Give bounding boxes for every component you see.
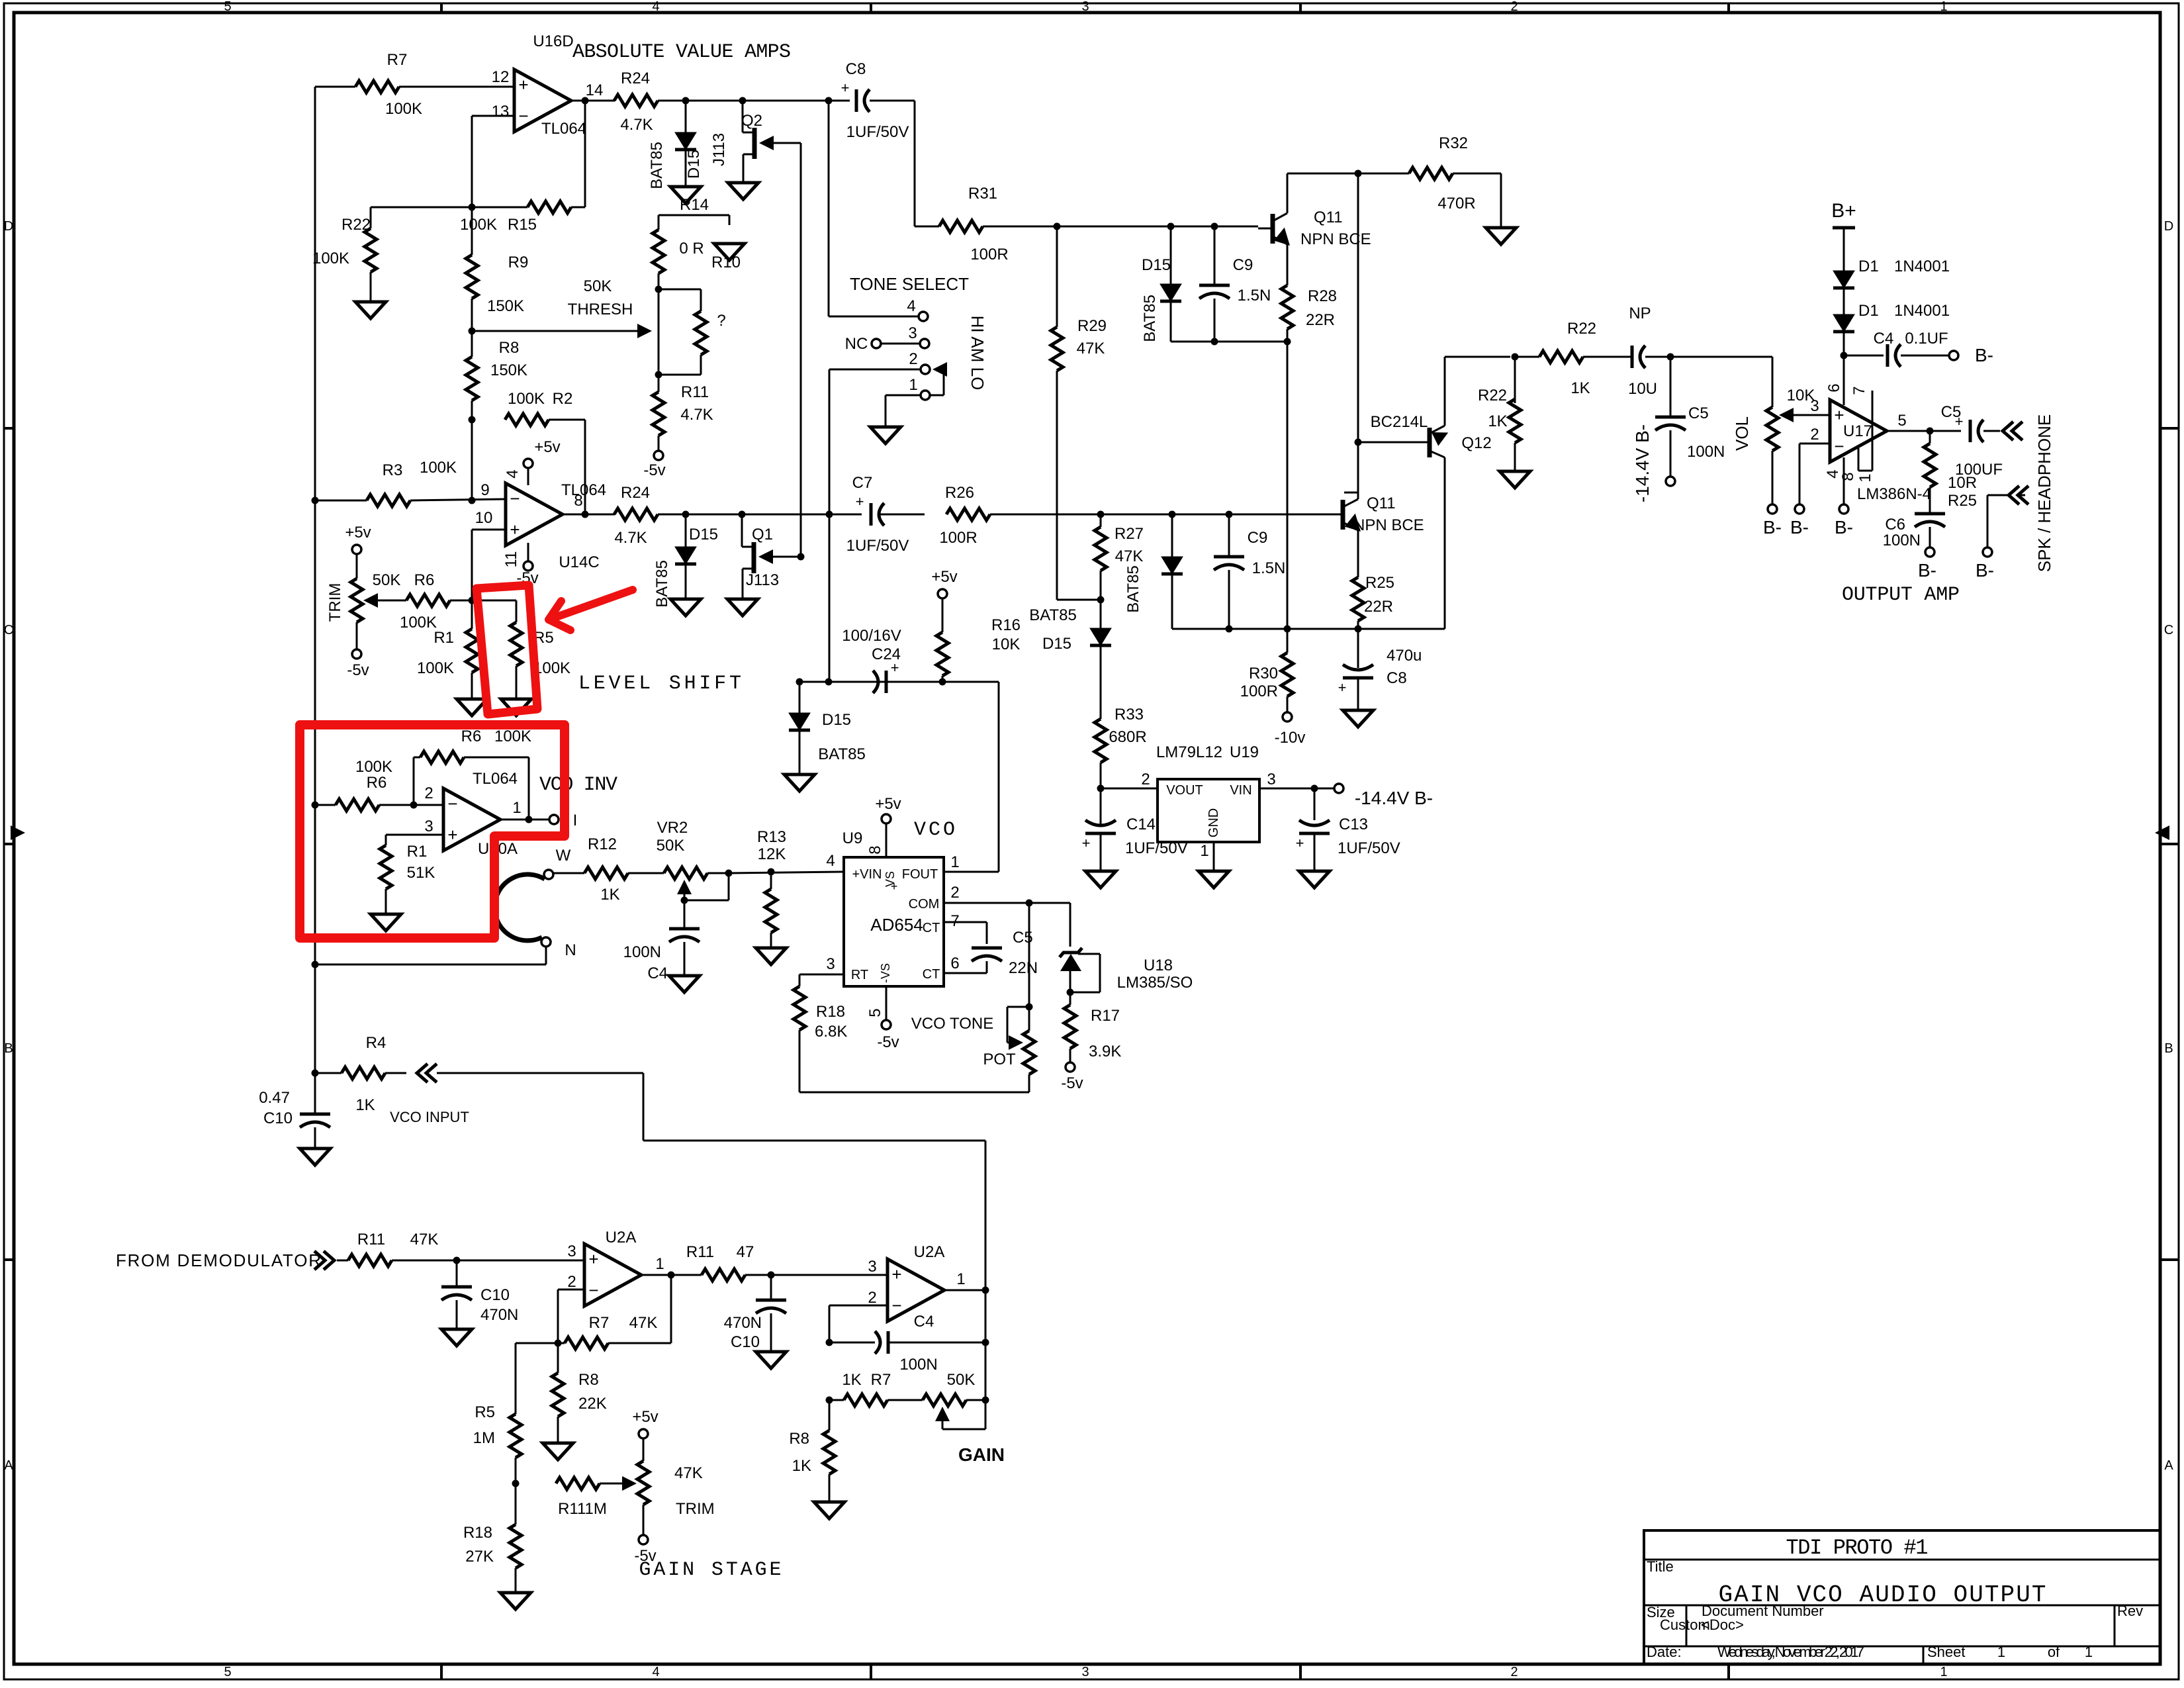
wire left bus (314, 87, 316, 1114)
svg-text:R31: R31 (968, 185, 997, 203)
svg-text:+: + (1338, 679, 1347, 696)
svg-text:2: 2 (1510, 0, 1518, 14)
svg-text:100K: 100K (385, 100, 422, 118)
svg-text:U14C: U14C (559, 553, 599, 571)
resistor R6 100K (400, 594, 450, 632)
capacitor C7 1UF/50V (846, 474, 909, 555)
svg-text:<Doc>: <Doc> (1701, 1617, 1744, 1633)
node U10A pin2 (410, 802, 418, 809)
svg-text:TDI PROTO #1: TDI PROTO #1 (1786, 1536, 1929, 1560)
svg-text:100K: 100K (400, 614, 437, 632)
wire R6 feedback (414, 757, 529, 820)
wire R25 to bottom wire (1357, 621, 1359, 629)
node level shift riser (825, 679, 833, 686)
label VCO TONE (911, 1015, 993, 1033)
svg-text:B-: B- (1976, 560, 1994, 581)
svg-text:1UF/50V: 1UF/50V (846, 123, 909, 141)
svg-text:R1: R1 (407, 843, 428, 861)
wire R11 47 to U2A b (671, 1274, 887, 1276)
wire level shift (799, 681, 999, 683)
wire R29 elbow (1057, 371, 1101, 600)
svg-text:Wednesday, November 22, 2017: Wednesday, November 22, 2017 (1717, 1644, 1864, 1660)
terminal B- spk (1976, 547, 1994, 581)
svg-text:150K: 150K (487, 297, 524, 315)
svg-text:1: 1 (1200, 842, 1208, 860)
svg-text:100R: 100R (939, 529, 977, 547)
svg-text:U17: U17 (1843, 422, 1872, 440)
svg-text:VOL: VOL (1732, 416, 1752, 451)
wire VCO input steps (437, 1073, 985, 1290)
wire TRIM top (356, 554, 358, 579)
node pot top (1026, 1004, 1033, 1011)
svg-text:R111M: R111M (558, 1500, 607, 1518)
svg-text:3: 3 (1267, 771, 1275, 788)
svg-text:ABSOLUTE VALUE AMPS: ABSOLUTE VALUE AMPS (572, 41, 791, 64)
svg-text:C6: C6 (1885, 516, 1905, 534)
wire R22 to ground (370, 272, 372, 302)
svg-text:-14.4V B-: -14.4V B- (1355, 788, 1433, 808)
node Q2 drain (739, 97, 747, 105)
terminal tone pin4 (907, 297, 928, 321)
capacitor C4 0.1UF (1844, 330, 1949, 367)
zener U18 LM385 (1060, 948, 1193, 1005)
svg-text:R6: R6 (367, 774, 387, 792)
svg-text:4: 4 (652, 1665, 659, 1679)
terminal N (541, 937, 576, 959)
svg-text:R22: R22 (1567, 320, 1596, 338)
wire R22 top (371, 207, 472, 228)
svg-text:3: 3 (868, 1258, 876, 1276)
svg-text:C4: C4 (914, 1313, 934, 1331)
svg-text:13: 13 (492, 103, 510, 120)
svg-text:TL064: TL064 (561, 481, 606, 499)
svg-text:100N: 100N (899, 1356, 937, 1374)
svg-text:C10: C10 (731, 1333, 760, 1351)
wire spk return (1987, 495, 2009, 547)
svg-text:C4: C4 (647, 964, 668, 982)
svg-text:10K: 10K (1787, 387, 1815, 404)
node C13 top (1311, 785, 1318, 792)
svg-text:470N: 470N (724, 1314, 762, 1332)
svg-text:100R: 100R (1240, 682, 1278, 700)
svg-text:R8: R8 (789, 1430, 809, 1448)
svg-text:22K: 22K (578, 1395, 607, 1413)
svg-text:1: 1 (512, 799, 521, 817)
chevron from demodulator (314, 1251, 334, 1270)
svg-text:FROM DEMODULATOR: FROM DEMODULATOR (116, 1250, 321, 1270)
resistor R24 second (614, 484, 658, 547)
resistor R11 4.7K (653, 383, 713, 436)
svg-text:R6: R6 (414, 571, 435, 589)
svg-text:D15: D15 (822, 711, 851, 729)
wire R6 to node (450, 600, 472, 602)
svg-text:C9: C9 (1233, 256, 1253, 274)
svg-text:1: 1 (956, 1270, 965, 1288)
ground below U19 (1199, 871, 1229, 888)
title block Title label (1647, 1558, 1674, 1575)
svg-text:100K: 100K (420, 459, 457, 477)
svg-text:R11: R11 (681, 383, 709, 401)
potentiometer VOL 10K (1732, 357, 1815, 504)
node D15b (682, 511, 690, 518)
svg-text:1N4001: 1N4001 (1894, 258, 1950, 275)
svg-text:47K: 47K (674, 1464, 703, 1482)
svg-text:3.9K: 3.9K (1089, 1043, 1121, 1060)
svg-text:47K: 47K (1077, 340, 1105, 357)
svg-text:+5v: +5v (931, 568, 957, 586)
svg-text:NPN BCE: NPN BCE (1353, 516, 1424, 534)
svg-text:10R: 10R (1948, 474, 1977, 492)
svg-text:D: D (2164, 219, 2173, 234)
node R14/R10 (655, 286, 662, 293)
section header VCO INV (539, 774, 617, 796)
ground below R8 1K (814, 1502, 844, 1519)
svg-text:Q11: Q11 (1367, 494, 1396, 512)
wire R3 line (315, 499, 506, 500)
svg-text:TL064: TL064 (541, 120, 586, 138)
svg-text:22R: 22R (1306, 311, 1335, 329)
svg-text:R18: R18 (816, 1003, 845, 1021)
svg-text:5: 5 (1897, 412, 1906, 430)
svg-text:C: C (4, 623, 13, 637)
svg-text:47: 47 (737, 1243, 754, 1261)
svg-text:27K: 27K (465, 1548, 494, 1566)
svg-text:11: 11 (502, 551, 520, 568)
U9 -5v pin5 (866, 986, 899, 1051)
svg-text:R25: R25 (1365, 574, 1394, 592)
pin 6 label U9 (950, 955, 959, 972)
potentiometer TRIM 47K (632, 1408, 714, 1535)
svg-text:B+: B+ (1831, 200, 1856, 222)
svg-text:0.1UF: 0.1UF (1905, 330, 1948, 348)
resistor R7 (355, 51, 422, 118)
node R30 top (1284, 626, 1291, 633)
svg-text:−: − (588, 1280, 598, 1300)
ground below C8 470u (1343, 710, 1373, 727)
wire R14 bracket (659, 215, 729, 230)
resistor R3 100K (367, 459, 457, 506)
svg-text:BAT85: BAT85 (1124, 565, 1142, 613)
title block frame (1644, 1530, 2160, 1664)
wire to R22h (1515, 356, 1539, 358)
pin 3 label U2A b (868, 1258, 876, 1276)
wire R8 1K to ground (829, 1474, 831, 1502)
U9 +5v pin8 (866, 795, 901, 857)
label POT (983, 1051, 1016, 1068)
resistor R22 1K horizontal (1539, 320, 1596, 397)
svg-text:+: + (891, 880, 898, 893)
svg-text:RT: RT (851, 968, 868, 982)
node U2A b out (982, 1287, 989, 1294)
resistor R11 47 (686, 1243, 754, 1281)
capacitor C5 100N b (1655, 357, 1725, 477)
capacitor C8 1UF/50V (841, 60, 909, 141)
terminal +5v TRIM (345, 524, 371, 554)
ground below R1 51K (371, 914, 401, 931)
resistor R7 47K fb (558, 1275, 671, 1349)
long riser R32 to Q11L (1357, 173, 1359, 492)
node R111M (512, 1480, 520, 1487)
svg-text:R32: R32 (1439, 134, 1468, 152)
svg-text:8: 8 (1839, 472, 1857, 481)
op-amp U14C output wire (563, 514, 615, 516)
wire R9 to THRESH node (471, 299, 473, 331)
resistor R7 1K gain (842, 1371, 891, 1406)
wire R33 to U19 (1100, 763, 1102, 824)
pin 7 label U9 (950, 912, 959, 930)
svg-text:10: 10 (475, 509, 493, 527)
label LM386N-4 (1857, 485, 1931, 503)
svg-text:Date:: Date: (1647, 1644, 1682, 1660)
resistor R22 100K (312, 216, 377, 272)
svg-text:C7: C7 (852, 474, 873, 492)
svg-text:?: ? (717, 312, 725, 330)
svg-text:6.8K: 6.8K (815, 1023, 847, 1041)
diode D1 1N4001 a (1833, 258, 1950, 288)
svg-text:+: + (841, 79, 850, 96)
svg-text:1K: 1K (1570, 379, 1590, 397)
wire R22v to ground (1514, 443, 1516, 471)
svg-text:C13: C13 (1339, 816, 1368, 833)
svg-text:1K: 1K (1488, 412, 1507, 430)
svg-text:+: + (447, 825, 457, 845)
wire U19 pin2 (1101, 788, 1158, 790)
node C9a bottom (1211, 338, 1218, 346)
wire R18 to bottom (799, 1030, 1029, 1092)
svg-text:R1: R1 (433, 629, 454, 647)
node U17 out (1927, 428, 1934, 435)
node VR2 out (725, 870, 733, 877)
svg-text:470N: 470N (480, 1306, 518, 1324)
resistor R12 1K (584, 835, 628, 904)
potentiometer TRIM 50K (326, 571, 434, 622)
svg-text:4: 4 (907, 297, 915, 315)
wire U10A output (500, 819, 549, 821)
svg-text:R11: R11 (357, 1231, 385, 1248)
terminal B- C6 (1918, 547, 1936, 581)
svg-text:R7: R7 (589, 1314, 610, 1332)
node R27 top (1097, 511, 1105, 518)
wire R15 to node (472, 207, 527, 209)
capacitor C10 470N c (724, 1275, 786, 1352)
capacitor C9 1.5N b (1214, 514, 1285, 629)
node R3/pin9 (469, 497, 476, 504)
resistor R13 12K (757, 828, 786, 933)
wiper arrow TRIM2 (622, 1476, 637, 1491)
node R3 left (312, 497, 319, 504)
resistor R6 inv input (336, 758, 392, 811)
svg-text:VCO INV: VCO INV (539, 774, 617, 796)
svg-text:C8: C8 (1387, 669, 1407, 687)
diode D15 BAT85 e (1161, 514, 1183, 629)
svg-text:A: A (4, 1458, 13, 1473)
resistor R18 6.8K (794, 986, 847, 1041)
terminal -10v (1275, 696, 1306, 747)
terminal B- pin4 (1835, 504, 1853, 538)
svg-text:C10: C10 (480, 1286, 510, 1304)
svg-text:0 R: 0 R (679, 240, 704, 258)
node C4 left (826, 1339, 833, 1346)
wire R28 to node (1287, 329, 1289, 629)
ground below R13 (756, 948, 786, 964)
pin 1 label U10A (512, 799, 521, 817)
wire FOUT riser (998, 682, 1000, 872)
wire pot bottom (1028, 1074, 1030, 1092)
resistor R24 first (614, 70, 658, 134)
svg-text:R8: R8 (578, 1371, 599, 1389)
svg-text:BAT85: BAT85 (1029, 606, 1077, 624)
svg-text:1K: 1K (600, 886, 619, 904)
op-amp U14C (506, 481, 606, 571)
svg-text:4: 4 (826, 852, 835, 870)
svg-text:2: 2 (424, 784, 433, 802)
ground below D15 f (784, 774, 815, 791)
svg-text:+5v: +5v (875, 795, 901, 813)
red arrow to R5 (549, 590, 633, 630)
U14C -5v pin11 (502, 543, 539, 587)
svg-text:LEVEL SHIFT: LEVEL SHIFT (578, 673, 741, 695)
svg-text:GND: GND (1206, 808, 1221, 837)
svg-text:100N: 100N (1883, 532, 1921, 549)
wire tone pin4 (829, 101, 919, 316)
node R7 1K left (826, 1397, 833, 1404)
svg-text:+5v: +5v (632, 1408, 658, 1426)
svg-text:1: 1 (655, 1255, 664, 1273)
wire main line U14C out right (880, 514, 925, 516)
wire U9 pin3 RT (799, 974, 844, 986)
ground below C10c (756, 1352, 786, 1368)
node U10A out (525, 816, 533, 823)
wire C5 to pin6 (944, 961, 987, 973)
chevron VCO input (417, 1064, 437, 1082)
title block Document Number label (1702, 1603, 1824, 1619)
svg-text:+VIN: +VIN (852, 867, 882, 882)
resistor R30 100R (1240, 629, 1293, 700)
resistor R31 100R (939, 185, 1009, 263)
svg-text:3: 3 (567, 1243, 576, 1260)
wire U17 output (1887, 430, 1961, 432)
node C9b top (1226, 511, 1233, 518)
node Q12 base tap (1355, 439, 1362, 446)
node pin2 riser tap (826, 511, 833, 518)
svg-text:−: − (891, 1295, 901, 1315)
red box around R5 (477, 585, 537, 714)
resistor R9 (466, 254, 528, 315)
pin 8 label (574, 492, 582, 510)
label SPK / HEADPHONE (2034, 414, 2054, 572)
svg-text:5: 5 (224, 1665, 231, 1679)
svg-text:R2: R2 (553, 390, 573, 408)
svg-text:R13: R13 (757, 828, 786, 846)
svg-text:-5v: -5v (634, 1547, 656, 1565)
ground below R22 (355, 302, 386, 318)
wire B+ to D1 (1843, 228, 1845, 271)
potentiometer VR2 50K (657, 819, 707, 900)
svg-text:−: − (447, 794, 457, 814)
resistor R17 3.9K (1064, 1005, 1121, 1060)
node C5b top (1667, 353, 1674, 361)
svg-text:W: W (556, 847, 571, 865)
node R7 fb a (555, 1340, 562, 1347)
svg-text:C: C (2164, 623, 2173, 637)
title block Size label (1647, 1604, 1675, 1620)
svg-text:1: 1 (1856, 473, 1874, 482)
wire R26 to Q11L base (990, 514, 1315, 516)
svg-text:470u: 470u (1387, 647, 1422, 665)
svg-text:D: D (4, 219, 13, 234)
op-amp U10A (443, 770, 518, 858)
resistor R14 0R (653, 196, 709, 273)
pin 7 stub U17 (1850, 386, 1872, 471)
svg-text:J113: J113 (746, 571, 779, 589)
svg-text:R17: R17 (1091, 1007, 1120, 1025)
terminal -5v TRIM2 (634, 1535, 656, 1565)
svg-text:1UF/50V: 1UF/50V (846, 537, 909, 555)
diode D1 1N4001 b (1833, 302, 1950, 332)
svg-text:Q12: Q12 (1461, 434, 1491, 452)
svg-text:HI AM LO: HI AM LO (968, 316, 987, 391)
wire R32 to ground (1453, 173, 1501, 228)
wire R8 22K to ground (557, 1417, 559, 1443)
resistor R33 680R (1095, 706, 1147, 763)
svg-text:22N: 22N (1009, 959, 1038, 977)
diode D15 BAT85 a (648, 101, 703, 189)
svg-text:9: 9 (480, 481, 489, 499)
wire COM to zener (1069, 903, 1071, 947)
svg-text:100K: 100K (312, 250, 349, 267)
wire tone pin2 (829, 369, 921, 371)
node C10b top (453, 1257, 461, 1264)
ground below Q1 (727, 599, 758, 616)
node R16 bottom (939, 679, 946, 686)
svg-text:R24: R24 (621, 70, 650, 87)
potentiometer GAIN 50K (923, 1371, 985, 1429)
wire R2 to U14C output riser (549, 420, 585, 514)
svg-text:R22: R22 (1478, 387, 1507, 404)
svg-text:THRESH: THRESH (568, 301, 633, 318)
section header ABSOLUTE VALUE AMPS (572, 41, 791, 64)
wire R5 1M net (516, 1343, 558, 1414)
pin 2 label U10A (424, 784, 433, 802)
wire D15c/C9a bottoms (1171, 341, 1287, 343)
border connector arrow left (11, 825, 25, 840)
svg-text:51K: 51K (407, 864, 435, 882)
op-amp U2A first (584, 1229, 641, 1306)
node U16D out (582, 97, 589, 105)
svg-text:R12: R12 (588, 835, 617, 853)
section header LEVEL SHIFT (578, 673, 741, 695)
node B+ C4 (1841, 352, 1848, 359)
node U14C out (582, 511, 589, 518)
resistor R25 22R (1352, 574, 1394, 621)
node R10 bottom (655, 371, 662, 379)
title block project name (1786, 1536, 1929, 1560)
resistor R29 47K (1051, 226, 1107, 371)
resistor R6 feedback (420, 727, 531, 763)
wire N to bus (315, 947, 546, 964)
wire demod to U2A (337, 1260, 584, 1262)
svg-text:1: 1 (950, 853, 959, 871)
svg-text:U16D: U16D (533, 32, 573, 50)
svg-text:D15: D15 (689, 526, 718, 543)
title block Rev label (2117, 1603, 2143, 1619)
label Q11 lower (1353, 494, 1424, 534)
label 50K THRESH (568, 277, 633, 318)
wire U2A a output (641, 1274, 680, 1276)
svg-text:A: A (2164, 1458, 2173, 1473)
resistor R111M trim (556, 1477, 607, 1518)
svg-text:U2A: U2A (606, 1229, 637, 1246)
